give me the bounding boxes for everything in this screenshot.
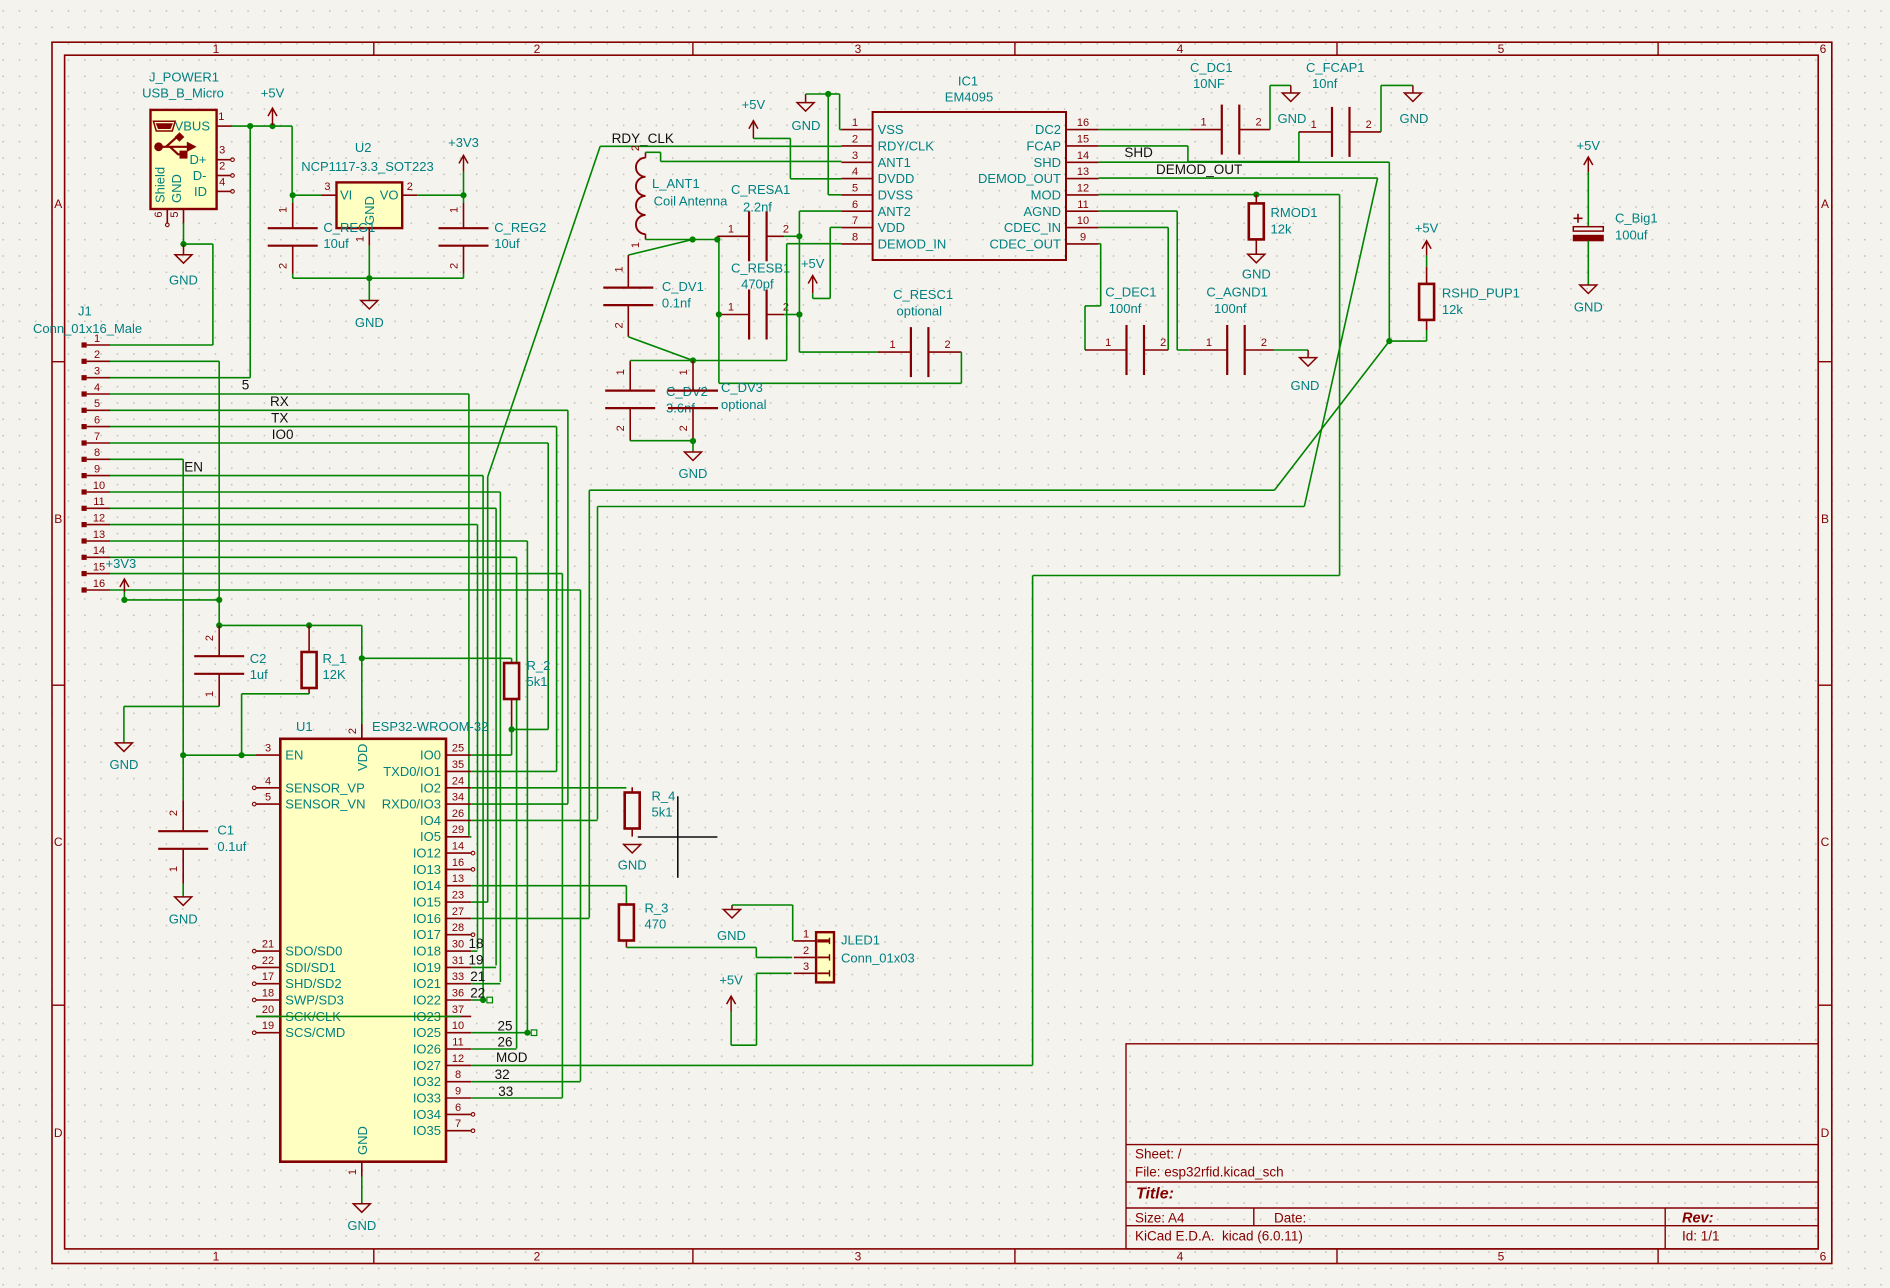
frame tick bottom <box>1336 1249 1338 1264</box>
svg-text:2: 2 <box>204 635 216 641</box>
svg-text:File: esp32rfid.kicad_sch: File: esp32rfid.kicad_sch <box>1135 1165 1284 1180</box>
svg-text:+3V3: +3V3 <box>106 556 137 571</box>
svg-text:ANT1: ANT1 <box>878 155 911 170</box>
svg-text:2: 2 <box>1366 119 1372 131</box>
IC1 pin 11 AGND <box>1066 210 1099 212</box>
wire <box>1274 349 1308 351</box>
J1 pin 13 <box>82 538 87 543</box>
wire <box>110 491 500 493</box>
wire <box>471 803 568 805</box>
wire <box>1085 305 1101 307</box>
svg-text:C_RESB1: C_RESB1 <box>731 260 790 275</box>
svg-text:25: 25 <box>452 743 464 755</box>
svg-text:GND: GND <box>355 1126 370 1155</box>
J_POWER1 pin 5 GND <box>183 209 185 223</box>
svg-text:+5V: +5V <box>1577 138 1601 153</box>
svg-text:13: 13 <box>452 873 464 885</box>
wire <box>242 693 310 695</box>
RMOD1 bottom lead <box>1255 239 1257 254</box>
R_1 top lead <box>308 625 310 652</box>
svg-text:33: 33 <box>452 971 464 983</box>
svg-text:2: 2 <box>615 425 627 431</box>
svg-text:10uf: 10uf <box>323 236 349 251</box>
svg-text:C_FCAP1: C_FCAP1 <box>1306 60 1365 75</box>
svg-text:IO16: IO16 <box>413 911 441 926</box>
svg-text:DEMOD_OUT: DEMOD_OUT <box>1156 162 1242 177</box>
svg-text:VDD: VDD <box>878 220 905 235</box>
wire <box>597 507 599 820</box>
frame tick right <box>1818 684 1832 686</box>
svg-text:GND: GND <box>1242 266 1271 281</box>
title block <box>1126 1044 1818 1249</box>
J1 pin 3 <box>82 375 87 380</box>
wire <box>1587 241 1589 285</box>
wire <box>786 244 788 361</box>
node ANT2/C_RESB1 <box>796 311 802 317</box>
wire <box>646 151 661 153</box>
svg-text:A: A <box>1821 197 1829 211</box>
svg-text:TXD0/IO1: TXD0/IO1 <box>383 764 441 779</box>
svg-text:IC1: IC1 <box>958 73 978 88</box>
svg-text:GND: GND <box>1574 300 1603 315</box>
svg-text:Shield: Shield <box>153 167 168 203</box>
power symbol +3V3 at U2 VO <box>463 155 465 171</box>
power symbol +5V at VBUS <box>272 108 274 125</box>
wire <box>556 427 558 772</box>
svg-text:GND: GND <box>109 757 138 772</box>
svg-text:IO13: IO13 <box>413 862 441 877</box>
graphic line cross vertical <box>677 796 679 878</box>
svg-text:10NF: 10NF <box>1193 76 1225 91</box>
svg-text:16: 16 <box>1077 117 1089 129</box>
R_2 bottom lead <box>511 699 513 729</box>
svg-text:10: 10 <box>93 480 105 492</box>
wire <box>511 729 513 755</box>
svg-text:3: 3 <box>852 150 858 162</box>
svg-text:Rev:: Rev: <box>1682 1211 1714 1227</box>
IC1 pin 5 DVSS <box>841 194 872 196</box>
svg-text:22: 22 <box>262 955 274 967</box>
J1 pin 11 <box>82 506 87 511</box>
svg-text:25: 25 <box>498 1018 513 1033</box>
U1 pin 6 IO34 <box>446 1113 471 1115</box>
svg-text:IO14: IO14 <box>413 878 441 893</box>
svg-text:5k1: 5k1 <box>527 674 548 689</box>
svg-text:7: 7 <box>455 1118 461 1130</box>
svg-text:2: 2 <box>168 810 180 816</box>
ground flag <box>724 910 741 919</box>
node DEMOD_IN/C_DV3 <box>690 357 696 363</box>
svg-text:470: 470 <box>645 917 667 932</box>
wire <box>790 178 841 180</box>
svg-text:EN: EN <box>285 748 303 763</box>
U1 pin 37 IO23 <box>446 1015 471 1017</box>
svg-text:C_REG1: C_REG1 <box>323 220 375 235</box>
wire <box>293 277 464 279</box>
wire <box>789 138 791 178</box>
unconnected pin end <box>231 190 235 194</box>
svg-text:20: 20 <box>262 1004 274 1016</box>
svg-text:IO4: IO4 <box>420 813 441 828</box>
wire <box>1187 146 1189 162</box>
wire <box>110 426 557 428</box>
wire <box>516 557 518 1048</box>
wire <box>495 508 497 965</box>
svg-text:4: 4 <box>94 382 100 394</box>
wire <box>1389 340 1426 342</box>
wire <box>292 194 321 196</box>
svg-text:13: 13 <box>93 529 105 541</box>
power symbol +5V at IC1 DVDD <box>752 121 754 139</box>
svg-text:5: 5 <box>242 378 250 393</box>
svg-text:15: 15 <box>1077 133 1089 145</box>
svg-text:3: 3 <box>855 1250 862 1264</box>
svg-text:2: 2 <box>407 181 413 193</box>
resistor R_3 470 <box>619 905 634 941</box>
svg-text:D: D <box>1821 1126 1830 1140</box>
U1 pin 12 IO27 <box>446 1064 471 1066</box>
wire <box>469 836 471 838</box>
wire <box>184 243 213 245</box>
wire <box>291 126 293 195</box>
node U2 GND rail <box>366 275 372 281</box>
wire <box>471 966 496 968</box>
svg-text:GND: GND <box>1278 111 1307 126</box>
wire <box>1099 129 1191 131</box>
svg-text:5: 5 <box>1498 42 1505 56</box>
svg-text:4: 4 <box>219 176 225 188</box>
U1 pin 5 SENSOR_VN <box>256 803 280 805</box>
svg-text:DEMOD_OUT: DEMOD_OUT <box>978 171 1061 186</box>
svg-text:SHD: SHD <box>1124 145 1153 160</box>
svg-text:IO35: IO35 <box>413 1123 441 1138</box>
wire <box>487 477 489 902</box>
ground GND below C1 <box>175 897 192 906</box>
unconnected pin end <box>252 1031 256 1035</box>
svg-text:32: 32 <box>495 1067 510 1082</box>
wire <box>182 884 184 897</box>
unconnected pin end <box>252 966 256 970</box>
capacitor C_RESC1 <box>910 327 912 377</box>
unconnected pin end <box>471 851 475 855</box>
svg-text:5: 5 <box>852 182 858 194</box>
svg-text:10: 10 <box>1077 215 1089 227</box>
wire <box>417 194 463 196</box>
wire <box>212 244 214 345</box>
wire <box>630 360 787 362</box>
svg-text:C_RESC1: C_RESC1 <box>893 287 953 302</box>
wire <box>567 410 569 803</box>
wire <box>756 956 792 958</box>
U1 pin 31 IO19 <box>446 966 471 968</box>
svg-text:JLED1: JLED1 <box>841 933 880 948</box>
svg-text:8: 8 <box>94 447 100 459</box>
unconnected pin end <box>471 868 475 872</box>
wire <box>660 152 662 161</box>
wire SCK/CLK to IO23 across U1 <box>256 1015 461 1017</box>
svg-text:2.2nf: 2.2nf <box>743 199 772 214</box>
RMOD1 top lead <box>1255 195 1257 204</box>
ground GND above JLED1 <box>731 905 733 910</box>
wire <box>499 492 501 982</box>
wire diagonal to C_DV1 <box>628 240 692 256</box>
capacitor C_FCAP1 <box>1331 107 1333 157</box>
svg-text:SCS/CMD: SCS/CMD <box>285 1025 345 1040</box>
unconnected pin end <box>252 802 256 806</box>
U2 pin 2 VO <box>402 194 417 196</box>
wire <box>1099 161 1390 163</box>
svg-text:D+: D+ <box>190 152 207 167</box>
frame tick top <box>1336 42 1338 55</box>
svg-text:RDY/CLK: RDY/CLK <box>878 138 935 153</box>
unconnected pin end <box>471 933 475 937</box>
svg-text:10uf: 10uf <box>494 236 520 251</box>
U1 pin 36 IO22 <box>446 999 471 1001</box>
svg-text:1: 1 <box>449 207 461 213</box>
node VBUS/+5V <box>269 123 275 129</box>
wire <box>471 770 556 772</box>
svg-text:3: 3 <box>94 366 100 378</box>
svg-text:J1: J1 <box>78 303 92 318</box>
svg-text:12: 12 <box>452 1053 464 1065</box>
svg-text:2: 2 <box>534 42 541 56</box>
wire <box>368 278 370 300</box>
svg-text:28: 28 <box>452 922 464 934</box>
svg-text:+5V: +5V <box>742 97 766 112</box>
svg-text:RDY_CLK: RDY_CLK <box>612 131 674 146</box>
svg-text:0.1nf: 0.1nf <box>662 296 691 311</box>
svg-text:14: 14 <box>452 841 464 853</box>
svg-text:7: 7 <box>94 431 100 443</box>
svg-text:C_DEC1: C_DEC1 <box>1105 285 1156 300</box>
ground GND below C_Big1 <box>1580 285 1597 294</box>
wire <box>1084 306 1086 350</box>
svg-text:12: 12 <box>1077 182 1089 194</box>
resistor R_2 5k1 <box>504 663 519 699</box>
svg-text:GND: GND <box>717 928 746 943</box>
graphic line cross horizontal <box>638 836 718 838</box>
svg-text:2: 2 <box>219 161 225 173</box>
JLED1 pin 1 <box>794 940 816 942</box>
J1 pin 5 <box>82 408 87 413</box>
svg-text:VI: VI <box>340 188 352 203</box>
node IO22 end <box>480 997 486 1003</box>
svg-text:1: 1 <box>355 236 367 242</box>
svg-text:2: 2 <box>449 263 461 269</box>
svg-text:C: C <box>54 835 63 849</box>
node R_1 top <box>306 622 312 628</box>
wire <box>828 194 841 196</box>
svg-text:IO21: IO21 <box>413 976 441 991</box>
U1 pin 25 IO0 <box>446 754 471 756</box>
svg-text:D: D <box>54 1126 63 1140</box>
svg-text:B: B <box>54 512 62 526</box>
wire <box>731 1044 756 1046</box>
capacitor C2 <box>194 655 244 657</box>
svg-text:23: 23 <box>452 890 464 902</box>
svg-text:SDO/SD0: SDO/SD0 <box>285 944 342 959</box>
svg-text:30: 30 <box>452 939 464 951</box>
svg-text:35: 35 <box>452 759 464 771</box>
svg-text:IO27: IO27 <box>413 1058 441 1073</box>
power symbol +5V at IC1 VDD <box>812 276 814 294</box>
wire <box>110 377 250 379</box>
svg-text:L_ANT1: L_ANT1 <box>652 176 700 191</box>
svg-text:1: 1 <box>1201 117 1207 129</box>
svg-text:RSHD_PUP1: RSHD_PUP1 <box>1442 286 1520 301</box>
svg-text:IO32: IO32 <box>413 1074 441 1089</box>
wire <box>463 172 465 196</box>
svg-text:1: 1 <box>890 339 896 351</box>
wire <box>589 489 1274 491</box>
svg-text:2: 2 <box>94 349 100 361</box>
wire <box>1099 226 1169 228</box>
U1 pin 17 SHD/SD2 <box>256 983 280 985</box>
svg-text:C_REG2: C_REG2 <box>494 220 546 235</box>
wire <box>756 973 758 1045</box>
J1 pin 16 <box>82 587 87 592</box>
svg-text:VBUS: VBUS <box>175 119 211 134</box>
node IO25 end <box>524 1030 530 1036</box>
wire <box>471 999 483 1001</box>
unconnected pin end <box>471 1129 475 1133</box>
svg-text:31: 31 <box>452 955 464 967</box>
wire <box>1587 172 1589 227</box>
svg-text:IO2: IO2 <box>420 780 441 795</box>
J1 pin 7 <box>82 440 87 445</box>
frame tick left <box>52 1004 65 1006</box>
svg-text:SDI/SD1: SDI/SD1 <box>285 960 336 975</box>
ground GND below R_4 <box>624 845 641 854</box>
svg-text:4: 4 <box>852 166 858 178</box>
wire <box>110 573 562 575</box>
svg-text:1: 1 <box>852 117 858 129</box>
svg-text:Conn_01x16_Male: Conn_01x16_Male <box>33 321 142 336</box>
svg-text:RXD0/IO3: RXD0/IO3 <box>382 797 441 812</box>
svg-text:C_AGND1: C_AGND1 <box>1206 285 1267 300</box>
ground GND at C_AGND1 <box>1300 358 1317 367</box>
svg-text:C_RESA1: C_RESA1 <box>731 182 790 197</box>
svg-text:100nf: 100nf <box>1214 301 1247 316</box>
wire <box>468 394 470 836</box>
svg-text:5k1: 5k1 <box>652 805 673 820</box>
svg-text:5: 5 <box>169 212 181 218</box>
unconnected pin end <box>252 949 256 953</box>
wire <box>477 525 479 950</box>
svg-text:C1: C1 <box>217 823 234 838</box>
wire <box>1380 85 1382 131</box>
svg-text:C_DC1: C_DC1 <box>1190 60 1233 75</box>
capacitor C_DC1 <box>1221 105 1223 155</box>
wire <box>787 243 842 245</box>
wire <box>471 1032 527 1034</box>
svg-text:1: 1 <box>728 223 734 235</box>
svg-text:34: 34 <box>452 792 464 804</box>
svg-text:SWP/SD3: SWP/SD3 <box>285 993 344 1008</box>
ground GND at C_FCAP1 <box>1404 93 1421 102</box>
wire <box>798 211 800 352</box>
svg-text:C_DV1: C_DV1 <box>662 279 704 294</box>
svg-text:26: 26 <box>498 1035 513 1050</box>
svg-text:1: 1 <box>218 111 224 123</box>
svg-text:11: 11 <box>452 1037 463 1049</box>
wire <box>784 314 799 316</box>
wire <box>630 440 693 442</box>
ground GND at C_DC1 <box>1282 93 1299 102</box>
regulator U2 NCP1117-3.3_SOT223 <box>337 182 403 228</box>
wire <box>183 754 256 756</box>
svg-text:RMOD1: RMOD1 <box>1271 205 1318 220</box>
svg-text:C: C <box>1821 835 1830 849</box>
svg-text:IO15: IO15 <box>413 895 441 910</box>
U1 pin 30 IO18 <box>446 950 471 952</box>
IC1 pin 16 DC2 <box>1066 129 1099 131</box>
IC1 pin 2 RDY/CLK <box>841 145 872 147</box>
wire <box>1270 84 1291 86</box>
unconnected pin end <box>252 786 256 790</box>
svg-text:+5V: +5V <box>719 972 743 987</box>
svg-text:EM4095: EM4095 <box>945 90 993 105</box>
svg-text:1: 1 <box>1105 337 1111 349</box>
IC1 pin 9 CDEC_OUT <box>1066 243 1099 245</box>
svg-text:36: 36 <box>452 988 464 1000</box>
frame tick left <box>52 361 65 363</box>
wire <box>232 125 293 127</box>
U1 pin 4 SENSOR_VP <box>256 787 280 789</box>
IC1 pin 4 DVDD <box>841 178 872 180</box>
node VBUS/J1.3 <box>247 123 253 129</box>
svg-text:NCP1117-3.3_SOT223: NCP1117-3.3_SOT223 <box>301 159 433 174</box>
U1 pin 7 IO35 <box>446 1130 471 1132</box>
svg-text:U2: U2 <box>355 140 372 155</box>
wire <box>1100 244 1102 306</box>
wire <box>110 524 478 526</box>
svg-text:26: 26 <box>452 808 464 820</box>
svg-text:SENSOR_VP: SENSOR_VP <box>285 780 364 795</box>
node ANT1/C_DV1 <box>690 236 696 242</box>
svg-text:6: 6 <box>1820 1250 1827 1264</box>
wire <box>830 226 841 228</box>
svg-text:1: 1 <box>728 302 734 314</box>
svg-text:13: 13 <box>1077 166 1089 178</box>
unconnected pin end <box>471 1113 475 1117</box>
resistor R_1 12K <box>302 652 317 688</box>
svg-text:9: 9 <box>455 1086 461 1098</box>
ground GND below C2 <box>115 743 132 752</box>
svg-text:27: 27 <box>452 906 464 918</box>
wire <box>482 476 484 999</box>
frame tick top <box>1657 42 1659 55</box>
node +3V3/J1.2 <box>216 597 222 603</box>
svg-text:+5V: +5V <box>261 85 285 100</box>
svg-text:1: 1 <box>678 369 690 375</box>
svg-text:12k: 12k <box>1442 302 1463 317</box>
ground GND near IC1 <box>797 103 814 112</box>
wire <box>1033 575 1340 577</box>
svg-text:17: 17 <box>262 971 274 983</box>
svg-text:6: 6 <box>455 1102 461 1114</box>
svg-text:1: 1 <box>204 691 216 697</box>
J1 pin 14 <box>82 555 87 560</box>
wire <box>839 94 841 130</box>
wire <box>799 351 877 353</box>
wire <box>471 819 597 821</box>
svg-text:100nf: 100nf <box>1109 301 1142 316</box>
node ANT1/C_RESB1 <box>714 236 720 242</box>
svg-text:GND: GND <box>347 1218 376 1233</box>
node C_DV GND <box>690 438 696 444</box>
svg-text:DVSS: DVSS <box>878 187 914 202</box>
